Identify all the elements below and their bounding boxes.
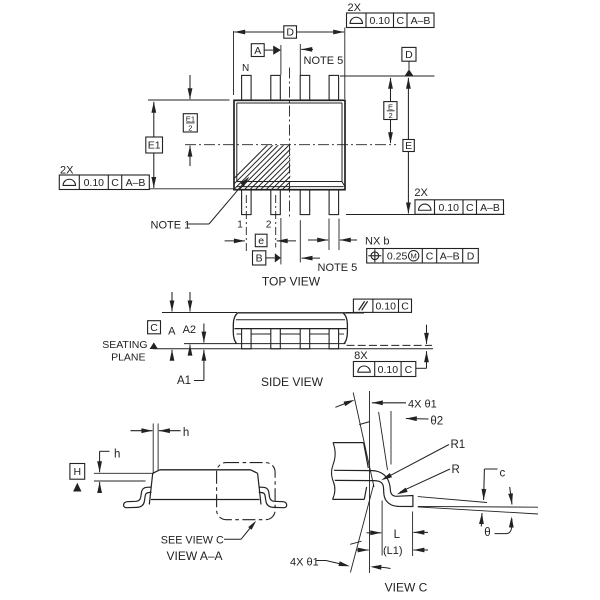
extension line, pin tips (top) bbox=[340, 75, 435, 77]
datum B bbox=[253, 251, 266, 265]
svg-text:0.10: 0.10 bbox=[84, 177, 105, 189]
lead (left, view A-A) bbox=[124, 487, 152, 508]
foot top extension line bbox=[418, 497, 487, 503]
svg-text:A: A bbox=[254, 45, 261, 57]
svg-text:R1: R1 bbox=[451, 439, 466, 451]
SEE VIEW C phantom box bbox=[217, 463, 276, 520]
svg-text:SEATING: SEATING bbox=[102, 339, 147, 351]
svg-text:E: E bbox=[405, 140, 412, 152]
body bottom line / A2 extension bbox=[184, 343, 346, 345]
svg-text:SIDE VIEW: SIDE VIEW bbox=[261, 375, 324, 389]
dimension label D bbox=[284, 26, 297, 38]
dimension E bbox=[407, 78, 409, 140]
SOIC package body (top view) bbox=[234, 100, 345, 189]
lead (right, view A-A) bbox=[259, 487, 287, 508]
datum A bbox=[251, 44, 264, 57]
dimension h (left) bbox=[100, 450, 110, 452]
pins (top row) bbox=[242, 75, 252, 100]
datum C (seating plane) bbox=[148, 321, 161, 334]
svg-text:VIEW C: VIEW C bbox=[385, 581, 428, 595]
svg-text:2X: 2X bbox=[414, 187, 428, 199]
dimension E/2 bbox=[390, 78, 392, 102]
seating plane line (theta) bbox=[418, 507, 538, 514]
svg-text:NOTE 5: NOTE 5 bbox=[318, 262, 358, 274]
dimension A bbox=[171, 292, 173, 312]
dimension NX b with position tolerance bbox=[328, 219, 330, 251]
svg-text:0.25: 0.25 bbox=[387, 251, 408, 263]
svg-text:PLANE: PLANE bbox=[111, 351, 145, 363]
lead profile (view C) bbox=[334, 470, 413, 506]
svg-text:TOP VIEW: TOP VIEW bbox=[262, 274, 321, 288]
svg-text:N: N bbox=[242, 63, 249, 74]
vertical reference line bbox=[369, 391, 371, 573]
svg-text:0.10: 0.10 bbox=[378, 364, 399, 376]
profile of surface frame (top right) bbox=[347, 13, 435, 28]
theta1 angle tick bbox=[359, 422, 369, 425]
NOTE 5 callout (top) bbox=[299, 44, 301, 75]
seating plane dashed line bbox=[347, 344, 433, 346]
svg-text:θ: θ bbox=[484, 527, 490, 539]
svg-text:C: C bbox=[150, 322, 158, 334]
svg-text:C: C bbox=[405, 364, 413, 376]
dimension A1 bbox=[203, 324, 205, 343]
dimension D (body length) bbox=[233, 31, 235, 95]
svg-text:2X: 2X bbox=[348, 2, 362, 14]
datum D bbox=[402, 47, 416, 61]
profile of surface frame (left) bbox=[59, 175, 149, 190]
svg-text:SEE VIEW C: SEE VIEW C bbox=[161, 535, 224, 547]
svg-text:E1: E1 bbox=[186, 115, 195, 124]
profile of surface frame (right) bbox=[415, 200, 504, 215]
dimension e (pitch) bbox=[225, 240, 245, 242]
svg-text:4X θ1: 4X θ1 bbox=[408, 399, 437, 411]
svg-text:A1: A1 bbox=[177, 375, 191, 387]
svg-text:NX b: NX b bbox=[365, 236, 389, 248]
vertical centerline bbox=[289, 68, 291, 218]
svg-text:8X: 8X bbox=[354, 350, 368, 362]
svg-text:H: H bbox=[74, 466, 82, 478]
svg-text:A2: A2 bbox=[183, 324, 196, 336]
theta2 reference lines bbox=[390, 411, 392, 465]
dimension label E/2 bbox=[384, 102, 397, 120]
svg-text:R: R bbox=[452, 464, 460, 476]
svg-text:4X θ1: 4X θ1 bbox=[290, 557, 319, 569]
svg-text:2: 2 bbox=[266, 219, 272, 230]
svg-text:1: 1 bbox=[237, 220, 243, 231]
seating plane line bbox=[153, 348, 433, 350]
dimension E1 bbox=[148, 99, 230, 101]
gauge plane line bbox=[418, 505, 538, 508]
svg-text:c: c bbox=[500, 467, 506, 479]
theta1 angle tick (bottom) bbox=[350, 541, 361, 544]
svg-text:A–B: A–B bbox=[126, 177, 146, 189]
profile frame 8X bbox=[353, 362, 415, 377]
svg-text:D: D bbox=[405, 49, 413, 61]
svg-text:D: D bbox=[286, 27, 294, 39]
slant line (theta1, upper) bbox=[353, 393, 374, 488]
position tolerance frame bbox=[367, 249, 479, 264]
svg-text:C: C bbox=[396, 15, 404, 27]
NOTE 5 callout (bottom) bbox=[299, 220, 301, 262]
dimension label E1 bbox=[146, 137, 163, 153]
svg-text:L: L bbox=[394, 529, 401, 541]
dimension (L1) bbox=[356, 549, 369, 551]
leader to body lower edge bbox=[149, 188, 233, 190]
pin 1 centerline bbox=[245, 195, 247, 252]
dimension E1/2 bbox=[189, 75, 191, 99]
dimension h (top) bbox=[152, 424, 154, 475]
svg-text:2: 2 bbox=[388, 111, 392, 120]
pin 2 centerline bbox=[275, 195, 277, 248]
svg-text:A–B: A–B bbox=[411, 15, 431, 27]
svg-text:C: C bbox=[401, 301, 409, 313]
dimension label e bbox=[255, 234, 267, 247]
leads (side view, 8X) bbox=[242, 329, 252, 349]
svg-text:θ2: θ2 bbox=[430, 416, 443, 428]
svg-text:A: A bbox=[168, 326, 176, 338]
slant line (theta1, lower) bbox=[350, 484, 373, 573]
package body (side view) bbox=[238, 312, 365, 314]
svg-text:B: B bbox=[256, 253, 263, 265]
svg-text:C: C bbox=[426, 251, 434, 263]
svg-text:h: h bbox=[114, 449, 120, 461]
svg-text:D: D bbox=[467, 251, 475, 263]
svg-text:0.10: 0.10 bbox=[370, 15, 391, 27]
dimension L bbox=[381, 501, 383, 556]
extension line, pin tips (bottom) bbox=[346, 214, 505, 216]
svg-text:h: h bbox=[183, 427, 189, 439]
svg-text:C: C bbox=[111, 177, 119, 189]
svg-text:0.10: 0.10 bbox=[375, 301, 396, 313]
parallelism frame bbox=[353, 299, 411, 312]
dimension label E bbox=[403, 140, 414, 152]
svg-text:C: C bbox=[466, 202, 474, 214]
seating plane tolerance arrows bbox=[426, 325, 428, 344]
svg-text:0.10: 0.10 bbox=[439, 202, 460, 214]
datum H bbox=[70, 464, 85, 480]
svg-text:E1: E1 bbox=[148, 140, 161, 152]
svg-text:2: 2 bbox=[188, 124, 192, 133]
svg-text:(L1): (L1) bbox=[383, 545, 403, 557]
svg-text:VIEW A–A: VIEW A–A bbox=[166, 549, 222, 563]
svg-text:e: e bbox=[258, 235, 264, 247]
pins (bottom row): pin 1, pin 2, pin 3, pin 4 bbox=[242, 190, 252, 215]
svg-text:NOTE 5: NOTE 5 bbox=[304, 55, 344, 67]
body stub (view C) bbox=[333, 442, 364, 444]
horizontal centerline bbox=[185, 144, 396, 146]
svg-text:A–B: A–B bbox=[480, 202, 500, 214]
extension line, body top bbox=[162, 312, 237, 314]
svg-text:NOTE 1: NOTE 1 bbox=[151, 219, 191, 231]
package body (view A-A) bbox=[160, 469, 251, 471]
dimension A2 bbox=[189, 292, 191, 312]
svg-text:M: M bbox=[411, 252, 417, 261]
h chamfer extension lines bbox=[94, 472, 153, 474]
svg-text:A–B: A–B bbox=[440, 251, 460, 263]
